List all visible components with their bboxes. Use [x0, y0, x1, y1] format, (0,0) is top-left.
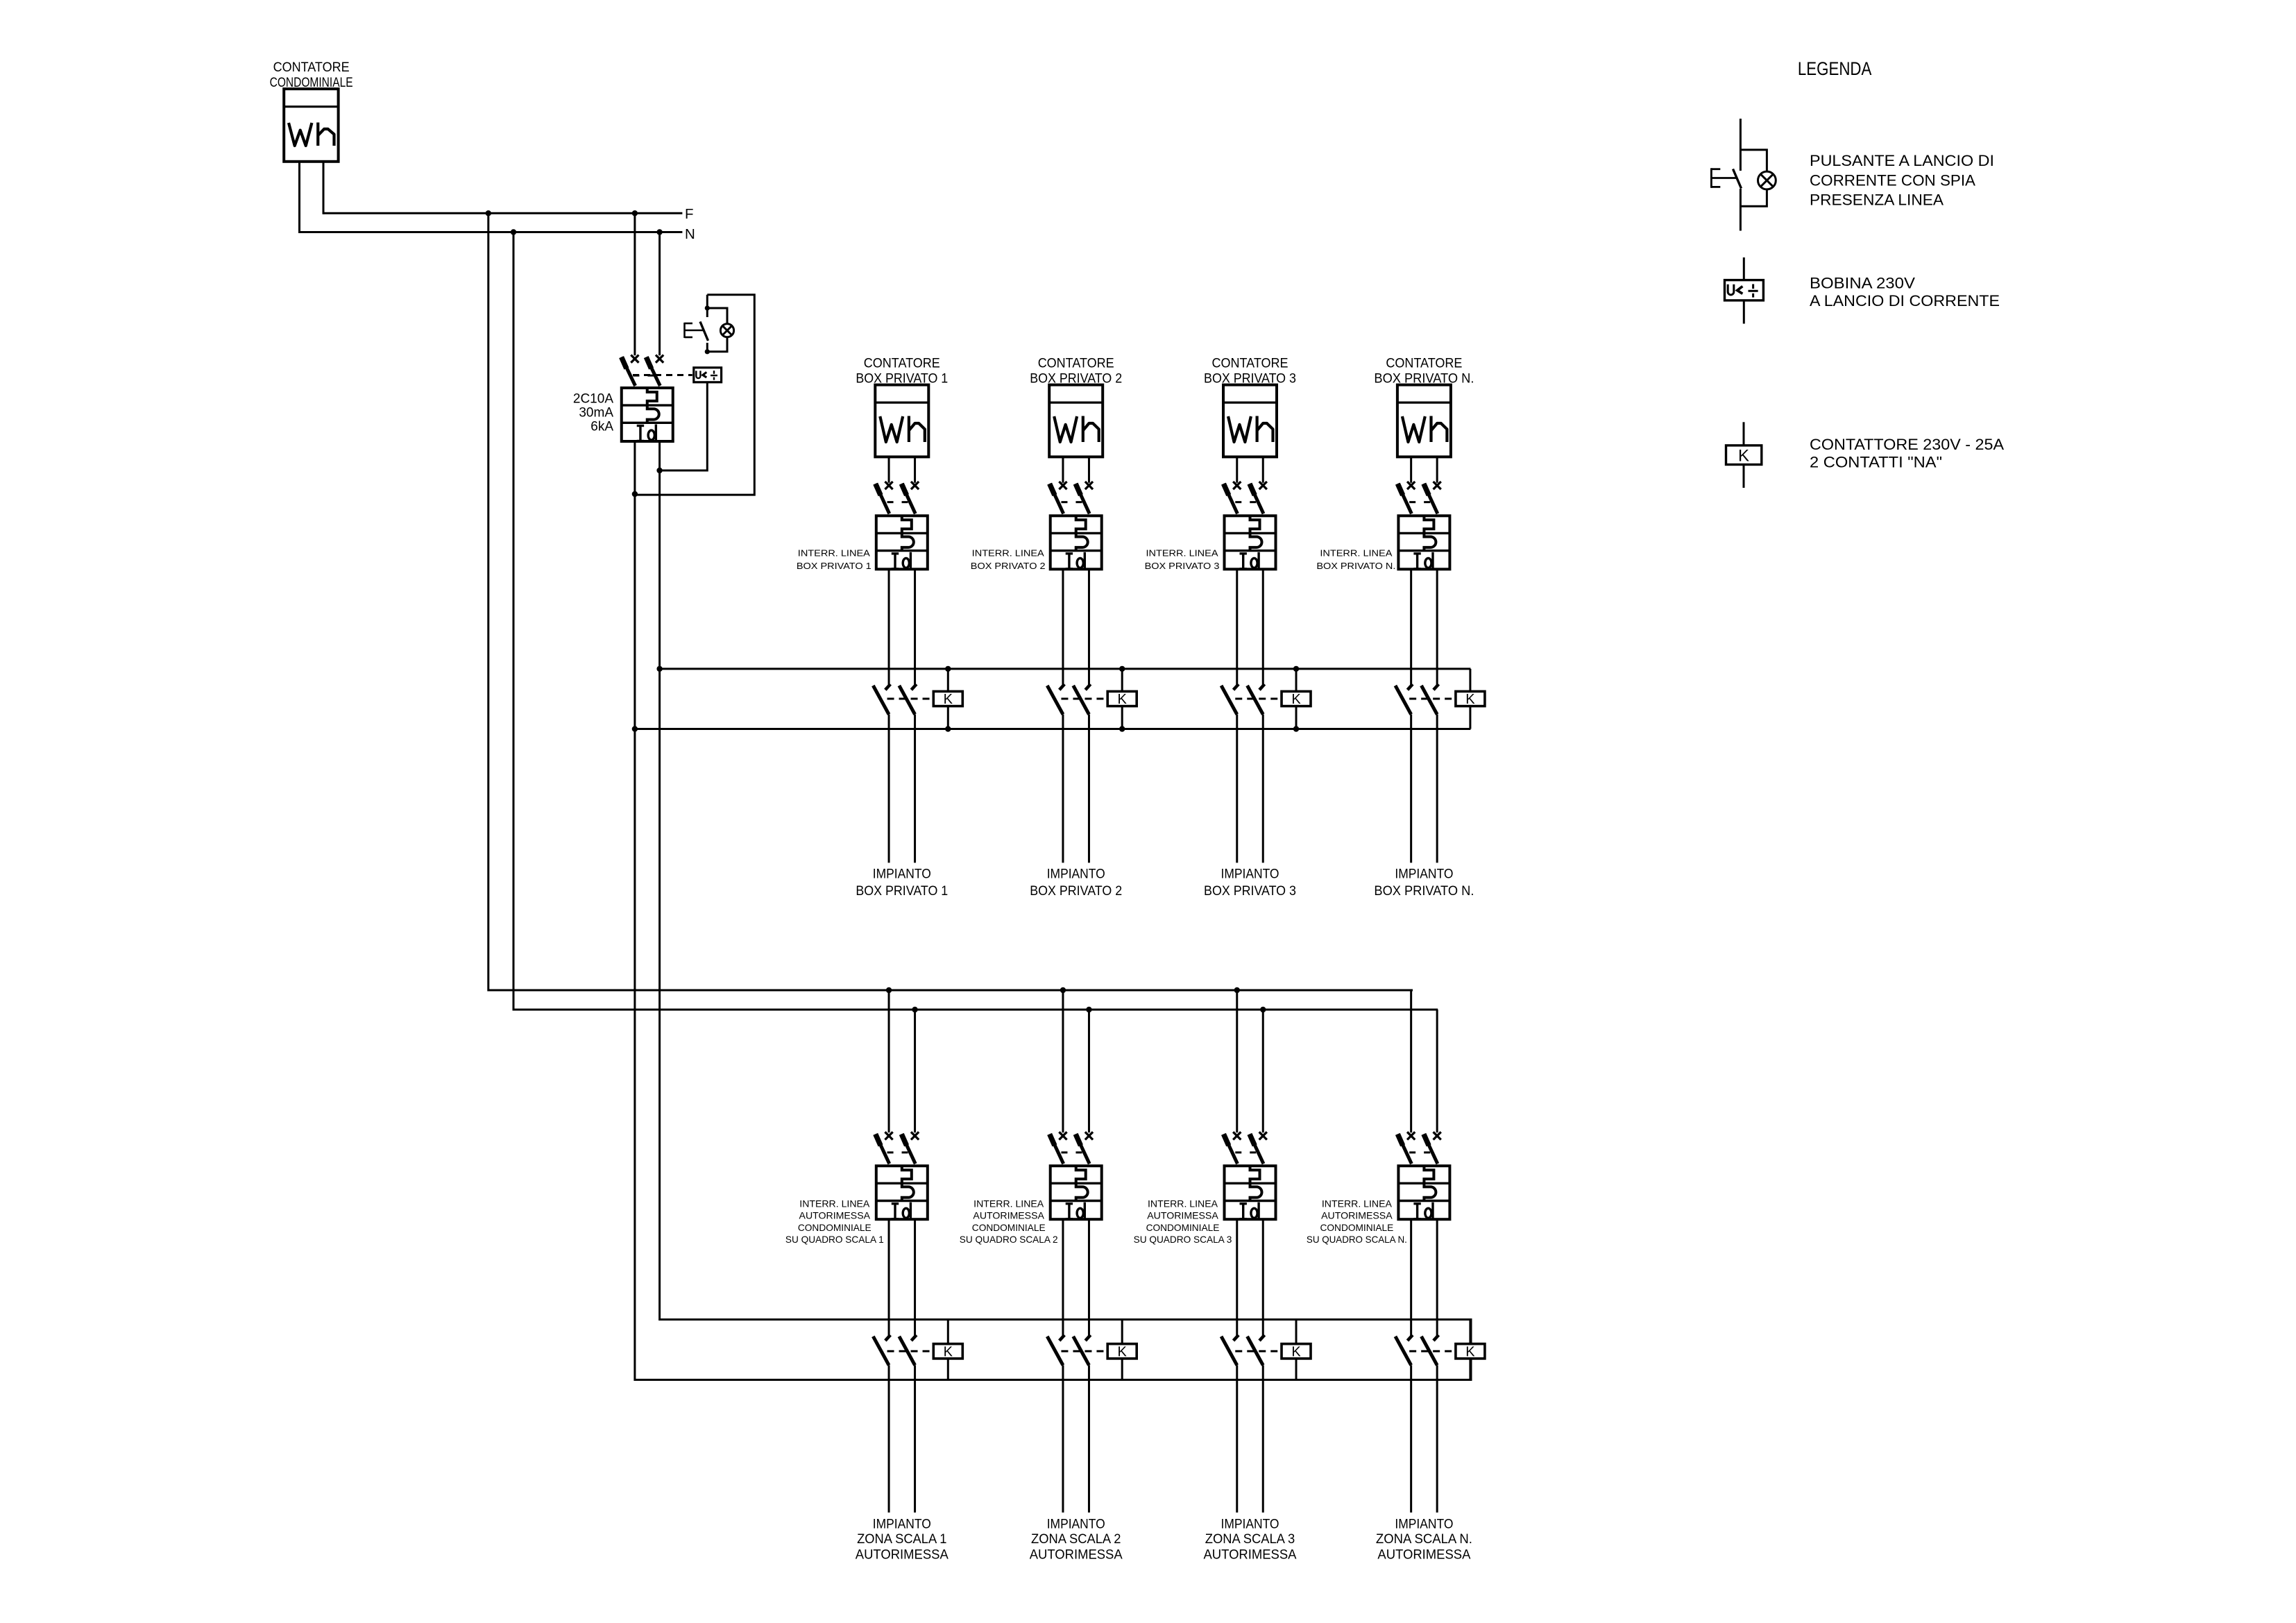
wire: Q3 outputs down through contactor K3 [1237, 569, 1264, 687]
svg-text:BOX PRIVATO 2: BOX PRIVATO 2 [971, 561, 1046, 571]
svg-text:BOX PRIVATO N.: BOX PRIVATO N. [1374, 884, 1474, 899]
svg-text:AUTORIMESSA: AUTORIMESSA [1321, 1211, 1393, 1221]
breaker Q2 INTERR. LINEA BOX PRIVATO 2 [1050, 482, 1102, 569]
meter M3 CONTATORE BOX PRIVATO 3 [1204, 356, 1296, 457]
svg-text:CONTATORE: CONTATORE [1038, 356, 1114, 371]
node: U-coil return to N output [656, 468, 662, 473]
label Q1 [797, 548, 871, 571]
node: lower coil bus tap [632, 726, 638, 731]
wire: K1 outputs to IMPIANTO BOX PRIVATO 1 [889, 715, 915, 863]
lamp H0 presenza linea branch [707, 308, 733, 352]
svg-text:K: K [1465, 1344, 1475, 1359]
breaker QG3 INTERR. LINEA AUTORIMESSA SU QUADRO SCALA 3 [1223, 1132, 1275, 1219]
meter M2 CONTATORE BOX PRIVATO 2 [1030, 356, 1122, 457]
wire: pushbutton column upper stub [706, 295, 708, 317]
svg-text:IMPIANTO: IMPIANTO [1395, 867, 1453, 882]
meter M4 CONTATORE BOX PRIVATO N. [1374, 356, 1474, 457]
svg-text:CONDOMINIALE: CONDOMINIALE [1320, 1223, 1394, 1233]
breaker Q0 2C10A 30mA 6kA (control circuit RCBO) [622, 355, 673, 442]
breaker Q3 INTERR. LINEA BOX PRIVATO 3 [1223, 482, 1275, 569]
svg-text:BOX PRIVATO 1: BOX PRIVATO 1 [856, 884, 948, 899]
legend symbol: contattore K [1726, 422, 1762, 488]
node: N bus to garage feeder [511, 229, 516, 235]
label Q4 [1316, 548, 1395, 571]
label QG1 [785, 1198, 884, 1245]
svg-text:PRESENZA LINEA: PRESENZA LINEA [1810, 191, 1944, 208]
wire: K3 outputs to IMPIANTO BOX PRIVATO 3 [1237, 715, 1264, 863]
wire: Q4 outputs down through contactor K4 [1411, 569, 1437, 687]
label Q3 [1145, 548, 1220, 571]
contactor KG2 contacts and coil [1047, 1320, 1137, 1380]
wire: Q1 outputs down through contactor K1 [889, 569, 915, 687]
svg-text:K: K [1465, 692, 1475, 707]
svg-text:IMPIANTO: IMPIANTO [1395, 1517, 1453, 1531]
wire: M2 outputs to breaker Q2 [1063, 457, 1089, 482]
wire: U-coil bottom to N node [660, 382, 708, 470]
wire: garage feeder F (long left vertical + horizontal) [488, 213, 1413, 990]
contactor K1 contacts and coil [873, 666, 962, 732]
svg-text:IMPIANTO: IMPIANTO [1221, 867, 1279, 882]
breaker QG2 INTERR. LINEA AUTORIMESSA SU QUADRO SCALA 2 [1050, 1132, 1102, 1219]
svg-text:BOBINA 230V: BOBINA 230V [1810, 274, 1915, 291]
label IMPIANTO BOX PRIVATO 1 [856, 867, 948, 899]
node/wire: garage feeder taps for column scala 3 [1234, 987, 1266, 1132]
label IMPIANTO ZONA SCALA 3 AUTORIMESSA [1204, 1517, 1297, 1562]
svg-text:CONDOMINIALE: CONDOMINIALE [972, 1223, 1046, 1233]
svg-text:INTERR. LINEA: INTERR. LINEA [972, 548, 1044, 559]
svg-text:K: K [1738, 447, 1749, 466]
label QG2 [960, 1198, 1058, 1245]
wire: QG2 outputs down through contactor KG2 [1063, 1219, 1089, 1338]
wire: QG3 outputs down through contactor KG3 [1237, 1219, 1264, 1338]
svg-text:ZONA SCALA 1: ZONA SCALA 1 [857, 1532, 946, 1547]
label IMPIANTO ZONA SCALA 2 AUTORIMESSA [1030, 1517, 1123, 1562]
wire: Q0 N pole output down to upper coil bus of garage section [660, 441, 1471, 1344]
legend text: bobina [1810, 274, 2000, 309]
contactor K4 contacts and coil [1395, 669, 1485, 729]
contactor KG3 contacts and coil [1221, 1320, 1311, 1380]
breaker Q1 INTERR. LINEA BOX PRIVATO 1 [876, 482, 928, 569]
label Q2 [971, 548, 1046, 571]
label IMPIANTO BOX PRIVATO 3 [1204, 867, 1296, 899]
svg-text:ZONA SCALA 3: ZONA SCALA 3 [1205, 1532, 1295, 1547]
wire: K2 outputs to IMPIANTO BOX PRIVATO 2 [1063, 715, 1089, 863]
bus: contactor coil upper bus (box privato section) [660, 668, 1471, 670]
node/wire: garage feeder taps for column scala 2 [1060, 987, 1092, 1132]
wire: Q0 F pole output down to lower coil bus of garage section [635, 441, 1471, 1380]
wire: control breaker F pole input [633, 213, 636, 355]
wire: M1 outputs to breaker Q1 [889, 457, 915, 482]
svg-text:CORRENTE CON SPIA: CORRENTE CON SPIA [1810, 171, 1975, 189]
node/wire: garage feeder taps for column scala N. [1411, 990, 1437, 1132]
svg-text:INTERR. LINEA: INTERR. LINEA [1146, 548, 1218, 559]
node: F bus to garage feeder [486, 210, 491, 216]
undervoltage release coil U< (a lancio di corrente) [694, 368, 722, 382]
meter M0 CONTATORE CONDOMINIALE [270, 60, 353, 162]
svg-text:K: K [1118, 692, 1128, 707]
pushbutton S0 (pulsante a lancio di corrente) [685, 322, 708, 341]
wire: K4 outputs to IMPIANTO BOX PRIVATO N. [1411, 715, 1437, 863]
svg-text:CONTATORE: CONTATORE [864, 356, 940, 371]
contactor KG4 contacts and coil [1395, 1320, 1485, 1380]
svg-text:AUTORIMESSA: AUTORIMESSA [973, 1211, 1044, 1221]
contactor K2 contacts and coil [1047, 666, 1137, 732]
svg-text:AUTORIMESSA: AUTORIMESSA [856, 1547, 949, 1562]
svg-text:BOX PRIVATO N.: BOX PRIVATO N. [1316, 561, 1395, 571]
legend symbol: bobina U< 230V [1725, 257, 1764, 324]
svg-text:BOX PRIVATO 2: BOX PRIVATO 2 [1030, 884, 1122, 899]
svg-text:INTERR. LINEA: INTERR. LINEA [1148, 1198, 1218, 1209]
label IMPIANTO BOX PRIVATO 2 [1030, 867, 1122, 899]
label IMPIANTO ZONA SCALA 1 AUTORIMESSA [856, 1517, 949, 1562]
svg-text:K: K [1118, 1344, 1128, 1359]
node: upper coil bus tap [656, 666, 662, 672]
svg-text:INTERR. LINEA: INTERR. LINEA [799, 1198, 870, 1209]
svg-text:SU QUADRO SCALA N.: SU QUADRO SCALA N. [1307, 1234, 1407, 1245]
wire: Q2 outputs down through contactor K2 [1063, 569, 1089, 687]
svg-text:K: K [944, 1344, 953, 1359]
wire: pushbutton top frame loop to F node [635, 295, 754, 495]
wire: pushbutton lower stub [706, 343, 708, 352]
wire: QG4 outputs down through contactor KG4 [1411, 1219, 1437, 1338]
svg-text:AUTORIMESSA: AUTORIMESSA [1204, 1547, 1297, 1562]
svg-text:INTERR. LINEA: INTERR. LINEA [1320, 548, 1392, 559]
node: F bus to control breaker [632, 210, 638, 216]
wire: KG1 outputs to IMPIANTO ZONA SCALA 1 [889, 1365, 915, 1512]
svg-text:ZONA SCALA N.: ZONA SCALA N. [1376, 1532, 1472, 1547]
label IMPIANTO BOX PRIVATO N. [1374, 867, 1474, 899]
svg-text:CONTATORE: CONTATORE [1386, 356, 1462, 371]
contactor KG1 contacts and coil [873, 1320, 962, 1380]
wire: M4 outputs to breaker Q4 [1411, 457, 1437, 482]
svg-text:F: F [685, 206, 694, 222]
bus F horizontal [323, 212, 682, 214]
meter M1 CONTATORE BOX PRIVATO 1 [856, 356, 948, 457]
label Q0 ratings [573, 391, 613, 434]
legend text: pulsante [1810, 152, 1994, 208]
label QG4 [1307, 1198, 1407, 1245]
wire: KG2 outputs to IMPIANTO ZONA SCALA 2 [1063, 1365, 1089, 1512]
node: frame of pushbutton to F output [632, 491, 638, 497]
wire: M0 output F (right) down to F bus [323, 162, 325, 214]
svg-text:6kA: 6kA [590, 419, 613, 434]
wire: M3 outputs to breaker Q3 [1237, 457, 1264, 482]
svg-text:N: N [685, 226, 695, 242]
svg-text:IMPIANTO: IMPIANTO [1047, 1517, 1105, 1531]
svg-text:SU QUADRO SCALA 1: SU QUADRO SCALA 1 [785, 1234, 884, 1245]
svg-text:CONTATTORE 230V - 25A: CONTATTORE 230V - 25A [1810, 436, 2004, 453]
svg-text:IMPIANTO: IMPIANTO [873, 867, 931, 882]
svg-text:K: K [1291, 692, 1301, 707]
svg-text:AUTORIMESSA: AUTORIMESSA [1377, 1547, 1470, 1562]
node: lamp branch bottom tap [705, 349, 710, 354]
svg-text:CONTATORE: CONTATORE [1212, 356, 1289, 371]
wire: QG1 outputs down through contactor KG1 [889, 1219, 915, 1338]
svg-text:AUTORIMESSA: AUTORIMESSA [1147, 1211, 1218, 1221]
legend text: contattore [1810, 436, 2004, 471]
legend symbol: pushbutton with lamp [1711, 119, 1776, 231]
svg-text:IMPIANTO: IMPIANTO [1221, 1517, 1279, 1531]
svg-text:SU QUADRO SCALA 2: SU QUADRO SCALA 2 [960, 1234, 1058, 1245]
node: N bus to control breaker [656, 229, 662, 235]
svg-text:CONDOMINIALE: CONDOMINIALE [798, 1223, 871, 1233]
svg-text:LEGENDA: LEGENDA [1798, 58, 1872, 79]
svg-text:IMPIANTO: IMPIANTO [873, 1517, 931, 1531]
bus: contactor coil lower bus (box privato section) [635, 728, 1470, 730]
svg-text:K: K [1291, 1344, 1301, 1359]
breaker QG4 INTERR. LINEA AUTORIMESSA SU QUADRO SCALA N. [1397, 1132, 1449, 1219]
svg-text:CONDOMINIALE: CONDOMINIALE [1146, 1223, 1220, 1233]
contactor K3 contacts and coil [1221, 666, 1311, 732]
svg-text:AUTORIMESSA: AUTORIMESSA [799, 1211, 871, 1221]
svg-text:CONTATORE: CONTATORE [273, 60, 350, 75]
wire: M0 output N (left) down to N bus [298, 162, 300, 233]
svg-text:ZONA SCALA 2: ZONA SCALA 2 [1031, 1532, 1121, 1547]
wire: KG4 outputs to IMPIANTO ZONA SCALA N. [1411, 1365, 1437, 1512]
svg-text:BOX PRIVATO 3: BOX PRIVATO 3 [1204, 884, 1296, 899]
svg-text:BOX PRIVATO 1: BOX PRIVATO 1 [797, 561, 871, 571]
svg-text:2 CONTATTI "NA": 2 CONTATTI "NA" [1810, 454, 1942, 471]
svg-text:A LANCIO DI CORRENTE: A LANCIO DI CORRENTE [1810, 292, 2000, 309]
bus N horizontal [300, 231, 683, 233]
svg-text:K: K [944, 692, 953, 707]
label IMPIANTO ZONA SCALA N. AUTORIMESSA [1376, 1517, 1472, 1562]
wire: garage feeder N (long left vertical + horizontal) [513, 232, 1438, 1010]
svg-text:2C10A: 2C10A [573, 391, 613, 406]
breaker Q4 INTERR. LINEA BOX PRIVATO N. [1397, 482, 1449, 569]
svg-text:30mA: 30mA [579, 405, 613, 420]
svg-text:AUTORIMESSA: AUTORIMESSA [1030, 1547, 1123, 1562]
svg-text:BOX PRIVATO 3: BOX PRIVATO 3 [1145, 561, 1220, 571]
svg-text:IMPIANTO: IMPIANTO [1047, 867, 1105, 882]
wire: KG3 outputs to IMPIANTO ZONA SCALA 3 [1237, 1365, 1264, 1512]
svg-text:INTERR. LINEA: INTERR. LINEA [1322, 1198, 1393, 1209]
svg-text:SU QUADRO SCALA 3: SU QUADRO SCALA 3 [1134, 1234, 1232, 1245]
svg-text:PULSANTE A LANCIO DI: PULSANTE A LANCIO DI [1810, 152, 1994, 169]
node: lamp branch top tap [705, 305, 710, 310]
label QG3 [1134, 1198, 1232, 1245]
svg-text:INTERR. LINEA: INTERR. LINEA [973, 1198, 1044, 1209]
node/wire: garage feeder taps for column scala 1 [886, 987, 918, 1132]
svg-text:INTERR. LINEA: INTERR. LINEA [798, 548, 870, 559]
breaker QG1 INTERR. LINEA AUTORIMESSA SU QUADRO SCALA 1 [876, 1132, 928, 1219]
dashed trip link from Q0 to undervoltage coil [633, 374, 692, 376]
wire: control breaker N pole input [658, 232, 661, 356]
